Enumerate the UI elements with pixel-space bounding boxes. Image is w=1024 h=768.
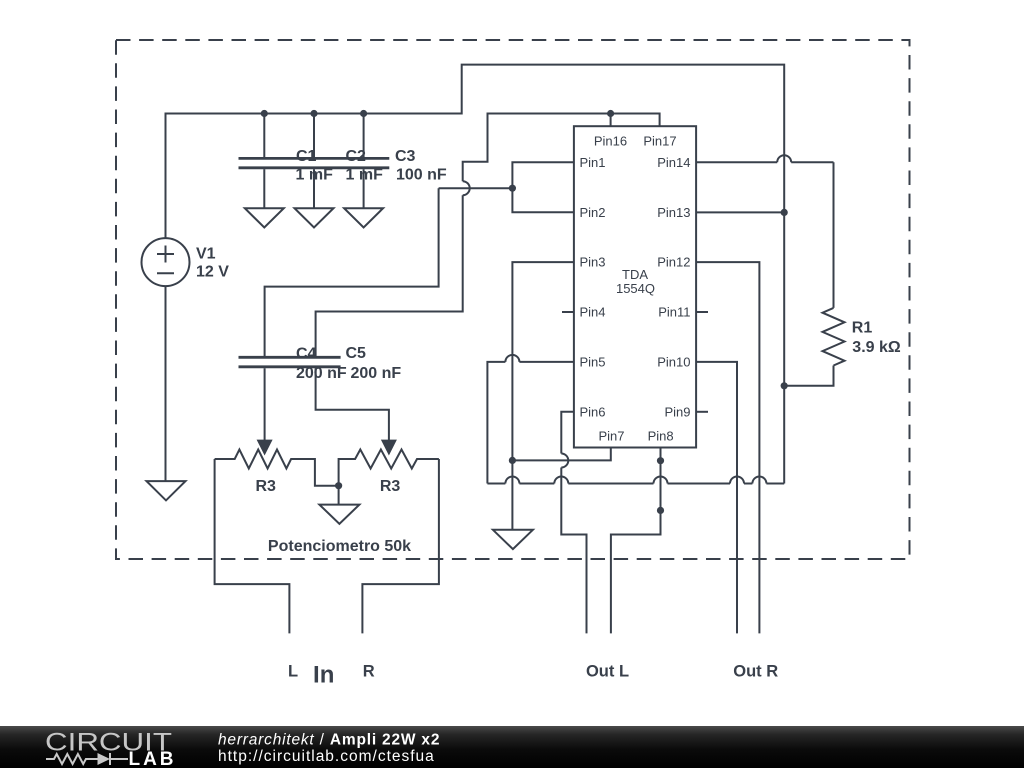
- wire: C5 bottom lead to right pot wiper: [316, 368, 389, 441]
- capacitor C4/C5 merged bottom plates: [239, 365, 341, 368]
- svg-text:Pin8: Pin8: [648, 428, 674, 443]
- junction dot: rail/C3: [360, 110, 367, 117]
- svg-text:R: R: [363, 663, 375, 681]
- V1 plus sign: [157, 253, 174, 255]
- junction dot: C3 node to Pin1/Pin2: [509, 185, 516, 192]
- svg-text:Pin5: Pin5: [580, 355, 606, 370]
- svg-text:Pin13: Pin13: [657, 205, 690, 220]
- wire hop: feedback over Pin3 ground vertical: [505, 477, 519, 484]
- wire: left pot left terminal down to L input: [215, 459, 290, 633]
- voltage source V1 12V: [142, 238, 190, 286]
- wire: Pin5 feedback, left then down: [519, 361, 574, 363]
- pin stub Pin4: [562, 311, 574, 313]
- wire: C4 top branch from C3 node: [265, 188, 439, 356]
- footer bar: [0, 726, 1024, 768]
- ground under C1: [245, 208, 284, 227]
- wire: Pin16 stub: [610, 114, 612, 127]
- capacitor C3 bottom lead: [363, 169, 365, 208]
- resistor R1 zigzag: [823, 308, 845, 366]
- wire hop: feedback over Pin12 vertical: [752, 477, 766, 484]
- svg-text:100 nF: 100 nF: [396, 167, 447, 184]
- ground between pots: [319, 505, 359, 524]
- svg-text:In: In: [313, 662, 334, 689]
- junction dot: Pin8 segment a: [657, 457, 664, 464]
- junction dot: R1 bottom / right rail: [781, 382, 788, 389]
- IC U1 TDA1554Q body: [574, 126, 696, 447]
- svg-text:Out L: Out L: [586, 663, 629, 681]
- wire: pots center tap to ground: [338, 486, 340, 505]
- svg-text:herrarchitekt / Ampli 22W x2: herrarchitekt / Ampli 22W x2: [218, 731, 440, 748]
- capacitor C3 top lead: [363, 114, 365, 158]
- junction dot: Pin16 branch: [607, 110, 614, 117]
- wire: Pin12 down to Out R (second wire): [696, 262, 759, 633]
- resistor R1 3.9k lead from Pin14 wire: [833, 162, 835, 308]
- wire: continue down to C5 top: [316, 195, 463, 356]
- wire hop: Pin6 vertical over Pin7 wire: [561, 454, 568, 468]
- junction dot: rail/C1: [261, 110, 268, 117]
- svg-text:12 V: 12 V: [196, 264, 229, 281]
- junction dot: Pin13 / right rail: [781, 209, 788, 216]
- junction dot: rail/C2: [310, 110, 317, 117]
- svg-text:1 mF: 1 mF: [296, 167, 334, 184]
- svg-text:C5: C5: [346, 345, 367, 362]
- svg-text:Pin16: Pin16: [594, 134, 627, 149]
- svg-text:Potenciometro 50k: Potenciometro 50k: [268, 538, 411, 555]
- svg-text:Pin10: Pin10: [657, 355, 690, 370]
- ground under C3: [344, 208, 383, 227]
- svg-text:C1: C1: [296, 148, 317, 165]
- svg-text:Pin9: Pin9: [664, 404, 690, 419]
- svg-text:3.9 kΩ: 3.9 kΩ: [852, 339, 901, 356]
- wire: right pot right terminal down to R input: [362, 459, 439, 633]
- wire: C4 bottom lead to left pot wiper: [264, 368, 266, 441]
- svg-text:Pin2: Pin2: [580, 205, 606, 220]
- wire hop: Pin14 wire over right rail vertical: [777, 155, 791, 162]
- wire hop: feedback over Pin10 vertical: [730, 477, 744, 484]
- wire: Pin16/Pin17 supply branch down to C5: [463, 114, 660, 182]
- wire hop: feedback over Pin8 vertical: [654, 477, 668, 484]
- wiper arrowhead of left pot R3: [258, 441, 271, 454]
- capacitor C1/C2/C3 merged top plates: [239, 157, 390, 160]
- ground under C2: [295, 208, 334, 227]
- wire: Pin14 to R1 top, hop over right rail: [696, 161, 777, 163]
- wire hop: vertical over C3 node wire at (462.7,188.2): [463, 181, 470, 195]
- svg-text:Pin6: Pin6: [580, 404, 606, 419]
- svg-text:200 nF: 200 nF: [296, 365, 347, 382]
- svg-text:L: L: [288, 663, 298, 681]
- svg-text:Pin11: Pin11: [658, 305, 690, 320]
- capacitor C1/C2/C3 merged bottom plates: [239, 166, 390, 169]
- wire: Pin7 stub down and left to ground node: [512, 448, 610, 461]
- svg-text:Out R: Out R: [733, 663, 778, 681]
- svg-text:Pin14: Pin14: [657, 155, 690, 170]
- wire hop: feedback over Pin6 vertical: [554, 477, 568, 484]
- capacitor C1 top lead: [263, 114, 265, 158]
- wire: Pin6 down to Out L (first wire): [561, 412, 574, 454]
- CircuitLab logo diode: [98, 753, 111, 765]
- svg-text:C3: C3: [395, 148, 416, 165]
- svg-text:http://circuitlab.com/ctesfua: http://circuitlab.com/ctesfua: [218, 748, 435, 765]
- svg-text:Pin4: Pin4: [580, 305, 606, 320]
- svg-text:C4: C4: [296, 346, 317, 363]
- svg-text:Pin12: Pin12: [657, 255, 690, 270]
- wire: Pin10 down to Out R (first wire): [696, 362, 737, 634]
- junction dot: Pin7 / ground vertical: [509, 457, 516, 464]
- wire: junction up to Pin1: [512, 162, 574, 188]
- capacitor C4/C5 merged top plates: [239, 356, 341, 359]
- wire: V1 bottom lead to ground: [165, 286, 167, 481]
- wire: R1 bottom to right rail junction: [784, 366, 833, 386]
- wire: Pin8 stub down to Out L (second wire): [611, 448, 661, 634]
- V1 minus sign: [157, 272, 174, 274]
- svg-text:R1: R1: [852, 319, 873, 336]
- capacitor C2 bottom lead: [313, 169, 315, 208]
- wire hop: Pin5 wire over Pin3 ground vertical: [505, 355, 519, 362]
- svg-text:1554Q: 1554Q: [616, 281, 655, 296]
- svg-text:200 nF: 200 nF: [351, 365, 402, 382]
- schematic dashed border frame: [116, 40, 910, 559]
- pin stub Pin9: [696, 411, 708, 413]
- wire: long feedback horizontal from Pin5 column to right rail bottom: [487, 483, 505, 485]
- wire: C3 node horizontal to junction: [439, 187, 513, 189]
- svg-text:1 mF: 1 mF: [346, 167, 384, 184]
- svg-text:R3: R3: [380, 478, 401, 495]
- svg-text:C2: C2: [346, 148, 367, 165]
- pin stub Pin11: [696, 311, 708, 313]
- svg-text:V1: V1: [196, 246, 216, 263]
- potentiometer R3 (right) zigzag: [339, 450, 439, 486]
- junction dot: pots center tap: [335, 482, 342, 489]
- potentiometer R3 (left) zigzag: [215, 450, 339, 486]
- junction dot: Pin8 segment b: [657, 507, 664, 514]
- svg-text:LAB: LAB: [129, 749, 174, 768]
- svg-text:Pin3: Pin3: [580, 255, 606, 270]
- wire: Pin13 to right rail junction: [696, 211, 784, 213]
- svg-text:Pin1: Pin1: [580, 155, 606, 170]
- svg-text:TDA: TDA: [622, 267, 648, 282]
- wire: junction down to Pin2: [512, 188, 574, 212]
- capacitor C2 top lead: [313, 114, 315, 158]
- ground under Pin3 wire: [493, 530, 533, 549]
- wire: Pin3 to ground vertical: [512, 262, 574, 530]
- svg-text:R3: R3: [255, 478, 276, 495]
- wiper arrowhead of right pot R3: [383, 441, 396, 454]
- ground under V1: [147, 481, 186, 500]
- CircuitLab logo resistor zigzag: [46, 754, 98, 764]
- wire: V+ rail from V1 top to top-right, down right side to feedback node: [166, 65, 785, 484]
- svg-text:Pin7: Pin7: [598, 428, 624, 443]
- capacitor C1 bottom lead: [263, 169, 265, 208]
- svg-text:Pin17: Pin17: [643, 134, 676, 149]
